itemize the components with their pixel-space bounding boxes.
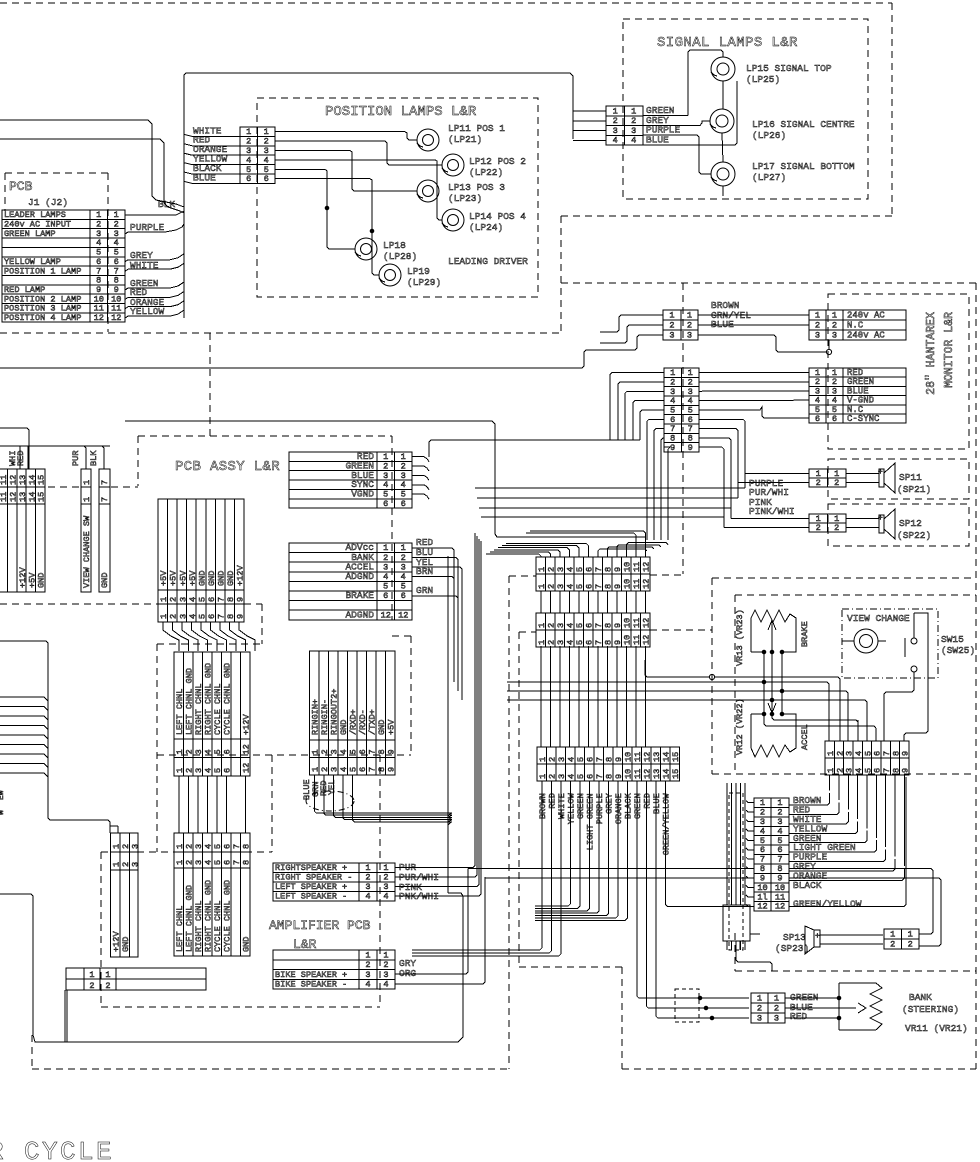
- svg-text:12: 12: [642, 635, 652, 645]
- svg-text:2: 2: [169, 614, 179, 619]
- svg-text:3: 3: [556, 623, 566, 628]
- svg-text:LIGHT GREEN: LIGHT GREEN: [585, 793, 595, 850]
- svg-text:2: 2: [320, 767, 330, 772]
- svg-text:GND: GND: [226, 571, 236, 586]
- svg-text:RIGHT CHNL: RIGHT CHNL: [194, 900, 204, 952]
- svg-text:9: 9: [614, 774, 624, 779]
- svg-text:SP13: SP13: [783, 932, 806, 943]
- svg-text:LP18: LP18: [383, 240, 406, 251]
- svg-text:6: 6: [358, 767, 368, 772]
- svg-text:GREEN: GREEN: [576, 793, 586, 819]
- svg-text:8: 8: [605, 757, 615, 762]
- svg-text:2: 2: [169, 597, 179, 602]
- svg-text:1: 1: [669, 310, 674, 320]
- svg-text:YEL: YEL: [327, 780, 337, 795]
- svg-text:LEFT SPEAKER +: LEFT SPEAKER +: [275, 882, 347, 892]
- svg-text:10: 10: [623, 579, 633, 589]
- svg-text:SP12: SP12: [899, 518, 922, 529]
- svg-text:8: 8: [226, 597, 236, 602]
- svg-text:LEFT CHNL GND: LEFT CHNL GND: [185, 668, 195, 735]
- svg-text:4: 4: [365, 980, 370, 990]
- svg-text:GREEN: GREEN: [633, 793, 643, 819]
- svg-text:(SP21): (SP21): [897, 484, 931, 495]
- svg-text:14: 14: [662, 769, 672, 779]
- svg-text:9: 9: [613, 584, 623, 589]
- svg-text:RED: RED: [547, 793, 557, 808]
- svg-text:C-SYNC: C-SYNC: [847, 414, 880, 424]
- svg-text:(LP29): (LP29): [407, 277, 441, 288]
- svg-text:LEFT SPEAKER -: LEFT SPEAKER -: [275, 892, 347, 902]
- svg-text:4: 4: [567, 757, 577, 762]
- svg-text:11: 11: [633, 752, 643, 762]
- svg-text:8: 8: [604, 640, 614, 645]
- svg-text:N.C: N.C: [847, 320, 864, 330]
- svg-text:CYCLE CHNL: CYCLE CHNL: [213, 900, 223, 952]
- svg-text:3: 3: [557, 757, 567, 762]
- svg-text:YELLOW: YELLOW: [130, 306, 165, 317]
- svg-text:J1 (J2): J1 (J2): [28, 197, 68, 208]
- svg-text:RINGIN-: RINGIN-: [320, 699, 330, 735]
- svg-text:1: 1: [537, 623, 547, 628]
- svg-text:1: 1: [687, 310, 692, 320]
- svg-text:3: 3: [383, 562, 388, 572]
- svg-text:2: 2: [383, 960, 388, 970]
- svg-text:11: 11: [632, 618, 642, 628]
- svg-text:5: 5: [576, 774, 586, 779]
- svg-text:1: 1: [774, 993, 779, 1003]
- svg-text:+5V: +5V: [169, 570, 179, 586]
- svg-text:1: 1: [631, 106, 636, 116]
- svg-text:ADGND: ADGND: [345, 571, 374, 582]
- svg-text:LP17 SIGNAL BOTTOM: LP17 SIGNAL BOTTOM: [752, 161, 855, 172]
- svg-text:9: 9: [901, 768, 911, 773]
- svg-text:BROWN: BROWN: [538, 793, 548, 819]
- svg-text:GND: GND: [377, 720, 387, 735]
- svg-text:(LP23): (LP23): [448, 193, 482, 204]
- svg-text:5: 5: [349, 749, 359, 754]
- svg-text:12: 12: [398, 610, 408, 620]
- svg-text:+5V: +5V: [178, 570, 188, 586]
- svg-text:8: 8: [604, 567, 614, 572]
- svg-text:CYCLE CHNL GND: CYCLE CHNL GND: [223, 880, 233, 952]
- svg-text:2: 2: [320, 749, 330, 754]
- svg-text:BRAKE: BRAKE: [800, 621, 810, 647]
- svg-text:12: 12: [242, 744, 252, 754]
- svg-text:(STEERING): (STEERING): [902, 1004, 959, 1015]
- svg-text:1: 1: [175, 860, 185, 865]
- svg-text:6: 6: [585, 623, 595, 628]
- svg-text:ORANGE: ORANGE: [614, 793, 624, 824]
- svg-text:4: 4: [204, 768, 214, 773]
- svg-text:RIGHT CHNL GND: RIGHT CHNL GND: [204, 880, 214, 952]
- svg-text:11: 11: [632, 579, 642, 589]
- svg-text:3: 3: [757, 1013, 762, 1023]
- svg-text:2: 2: [547, 623, 557, 628]
- svg-text:12: 12: [643, 769, 653, 779]
- svg-text:1: 1: [757, 993, 762, 1003]
- svg-text:4: 4: [383, 572, 388, 582]
- svg-text:5: 5: [213, 749, 223, 754]
- svg-text:11: 11: [633, 769, 643, 779]
- svg-text:PUR: PUR: [71, 451, 81, 466]
- svg-text:9: 9: [613, 567, 623, 572]
- svg-text:3: 3: [556, 567, 566, 572]
- svg-text:BLK: BLK: [89, 450, 99, 466]
- svg-text:3: 3: [365, 970, 370, 980]
- svg-text:RIGHTSPEAKER +: RIGHTSPEAKER +: [275, 863, 347, 873]
- svg-text:6: 6: [264, 174, 269, 184]
- svg-text:+5V: +5V: [387, 719, 397, 735]
- svg-text:6: 6: [223, 768, 233, 773]
- svg-text:(LP26): (LP26): [752, 130, 786, 141]
- svg-text:/RXD+: /RXD+: [349, 709, 359, 735]
- svg-text:5: 5: [213, 860, 223, 865]
- svg-text:1: 1: [159, 614, 169, 619]
- svg-text:(LP21): (LP21): [448, 134, 482, 145]
- svg-text:5: 5: [197, 597, 207, 602]
- svg-text:RINGOUT2+: RINGOUT2+: [330, 689, 340, 735]
- svg-text:ADGND: ADGND: [345, 609, 374, 620]
- svg-text:2: 2: [834, 523, 839, 533]
- svg-text:8: 8: [377, 749, 387, 754]
- svg-text:10: 10: [623, 618, 633, 628]
- svg-text:4: 4: [339, 767, 349, 772]
- svg-text:5: 5: [575, 640, 585, 645]
- svg-text:+5V: +5V: [188, 570, 198, 586]
- svg-text:12: 12: [757, 902, 767, 912]
- svg-text:1: 1: [365, 950, 370, 960]
- svg-text:4: 4: [339, 749, 349, 754]
- svg-text:12: 12: [642, 562, 652, 572]
- svg-text:2: 2: [365, 960, 370, 970]
- svg-text:3: 3: [401, 562, 406, 572]
- svg-text:9: 9: [670, 443, 675, 453]
- svg-text:1: 1: [537, 567, 547, 572]
- svg-text:GRN: GRN: [416, 585, 433, 596]
- svg-text:6: 6: [832, 414, 837, 424]
- svg-text:4: 4: [613, 136, 618, 146]
- svg-text:2: 2: [774, 1003, 779, 1013]
- svg-text:4: 4: [567, 774, 577, 779]
- svg-text:PURPLE: PURPLE: [595, 793, 605, 824]
- svg-text:7: 7: [594, 640, 604, 645]
- svg-text:4: 4: [204, 844, 214, 849]
- svg-text:WHITE: WHITE: [557, 793, 567, 819]
- svg-text:12: 12: [381, 610, 391, 620]
- svg-text:7: 7: [368, 767, 378, 772]
- svg-text:EW: EW: [0, 790, 6, 800]
- svg-text:LP19: LP19: [407, 266, 430, 277]
- svg-text:1: 1: [365, 863, 370, 873]
- svg-text:3: 3: [383, 970, 388, 980]
- svg-text:GREEN/YELLOW: GREEN/YELLOW: [793, 899, 862, 910]
- svg-text:PCB ASSY L&R: PCB ASSY L&R: [175, 459, 280, 475]
- svg-text:9: 9: [387, 749, 397, 754]
- svg-text:3: 3: [687, 330, 692, 340]
- svg-text:LP12 POS 2: LP12 POS 2: [469, 156, 526, 167]
- svg-text:6: 6: [815, 414, 820, 424]
- svg-text:28″ HANTAREX: 28″ HANTAREX: [925, 312, 938, 395]
- svg-text:6: 6: [586, 774, 596, 779]
- svg-text:1: 1: [175, 844, 185, 849]
- svg-text:+: +: [815, 932, 820, 941]
- svg-text:240v AC: 240v AC: [847, 310, 885, 320]
- svg-text:2: 2: [548, 774, 558, 779]
- svg-text:RED: RED: [642, 793, 652, 808]
- svg-text:10: 10: [623, 562, 633, 572]
- svg-text:3: 3: [194, 749, 204, 754]
- svg-text:4: 4: [204, 749, 214, 754]
- svg-text:GREEN LAMP: GREEN LAMP: [4, 229, 56, 239]
- svg-text:GREY: GREY: [604, 793, 614, 814]
- svg-text:RIGHT CHNL: RIGHT CHNL: [194, 683, 204, 735]
- svg-text:2: 2: [757, 1003, 762, 1013]
- svg-text:3: 3: [130, 844, 140, 849]
- svg-text:1: 1: [908, 930, 913, 940]
- svg-text:1: 1: [159, 597, 169, 602]
- svg-text:RINGIN+: RINGIN+: [311, 699, 321, 735]
- svg-text:VR11 (VR21): VR11 (VR21): [905, 1023, 968, 1034]
- svg-text:LP11 POS 1: LP11 POS 1: [448, 123, 505, 134]
- svg-text:6: 6: [246, 174, 251, 184]
- svg-text:8: 8: [377, 767, 387, 772]
- svg-text:1: 1: [537, 640, 547, 645]
- svg-text:3: 3: [631, 126, 636, 136]
- svg-text:2: 2: [547, 567, 557, 572]
- svg-text:9: 9: [614, 757, 624, 762]
- svg-text:BIKE SPEAKER +: BIKE SPEAKER +: [275, 970, 347, 980]
- svg-text:VR12 (VR22): VR12 (VR22): [735, 698, 745, 755]
- svg-text:5: 5: [349, 767, 359, 772]
- svg-text:4: 4: [383, 892, 388, 902]
- svg-text:BRAKE: BRAKE: [345, 590, 374, 601]
- svg-text:2: 2: [401, 553, 406, 563]
- svg-text:3: 3: [774, 1013, 779, 1023]
- svg-text:3: 3: [330, 767, 340, 772]
- svg-text:VR13 (VR23): VR13 (VR23): [735, 609, 745, 666]
- svg-text:9: 9: [613, 640, 623, 645]
- svg-text:12: 12: [775, 902, 785, 912]
- svg-text:5: 5: [576, 757, 586, 762]
- svg-text:11: 11: [632, 635, 642, 645]
- svg-text:POSITION 1 LAMP: POSITION 1 LAMP: [4, 266, 81, 276]
- svg-text:5: 5: [197, 614, 207, 619]
- svg-text:2: 2: [383, 873, 388, 883]
- svg-text:12: 12: [94, 313, 104, 323]
- svg-text:1: 1: [383, 543, 388, 553]
- svg-text:1: 1: [383, 950, 388, 960]
- svg-text:RED: RED: [16, 451, 26, 466]
- svg-text:LP15 SIGNAL TOP: LP15 SIGNAL TOP: [746, 63, 832, 74]
- svg-text:CYCLE CHNL: CYCLE CHNL: [213, 683, 223, 735]
- svg-text:9: 9: [387, 767, 397, 772]
- svg-text:(SW25): (SW25): [941, 645, 975, 656]
- svg-text:BLUE: BLUE: [646, 134, 669, 145]
- svg-text:5: 5: [575, 584, 585, 589]
- svg-text:7: 7: [232, 844, 242, 849]
- svg-text:6: 6: [207, 597, 217, 602]
- svg-text:BLUE: BLUE: [652, 793, 662, 814]
- svg-text:(LP28): (LP28): [383, 251, 417, 262]
- svg-text:1: 1: [82, 497, 92, 502]
- svg-text:1: 1: [82, 480, 92, 485]
- svg-text:9: 9: [901, 751, 911, 756]
- svg-text:7: 7: [595, 774, 605, 779]
- svg-text:PINK/WHI: PINK/WHI: [749, 506, 795, 517]
- svg-text:6: 6: [401, 499, 406, 509]
- svg-text:SP11: SP11: [899, 472, 922, 483]
- svg-text:7: 7: [594, 584, 604, 589]
- svg-text:4: 4: [566, 567, 576, 572]
- svg-text:2: 2: [185, 768, 195, 773]
- svg-text:RIGHT CHNL GND: RIGHT CHNL GND: [204, 663, 214, 735]
- svg-text:10: 10: [624, 752, 634, 762]
- svg-text:BLACK: BLACK: [623, 792, 633, 819]
- svg-text:ACCEL: ACCEL: [800, 724, 810, 750]
- svg-text:BLUE: BLUE: [193, 172, 216, 183]
- svg-text:7: 7: [216, 597, 226, 602]
- svg-text:1: 1: [175, 768, 185, 773]
- svg-text:2: 2: [631, 116, 636, 126]
- svg-text:2: 2: [383, 553, 388, 563]
- svg-text:AMPLIFIER PCB: AMPLIFIER PCB: [269, 918, 371, 933]
- svg-text:7: 7: [100, 497, 110, 502]
- svg-text:15: 15: [37, 492, 47, 502]
- svg-text:VIEW CHANGE: VIEW CHANGE: [847, 613, 910, 624]
- svg-text:1: 1: [832, 310, 837, 320]
- svg-text:1: 1: [311, 767, 321, 772]
- svg-text:VIEW CHANGE SW: VIEW CHANGE SW: [82, 515, 92, 588]
- svg-text:4: 4: [365, 892, 370, 902]
- svg-text:5: 5: [213, 844, 223, 849]
- svg-text:1: 1: [89, 970, 94, 980]
- svg-text:GND: GND: [339, 720, 349, 735]
- svg-text:6: 6: [585, 640, 595, 645]
- svg-text:3: 3: [178, 614, 188, 619]
- svg-text:4: 4: [204, 860, 214, 865]
- svg-text:15: 15: [671, 769, 681, 779]
- svg-text:1: 1: [537, 584, 547, 589]
- svg-text:1: 1: [311, 749, 321, 754]
- svg-text:7: 7: [216, 614, 226, 619]
- svg-text:3: 3: [613, 126, 618, 136]
- svg-text:1: 1: [890, 930, 895, 940]
- svg-text:2: 2: [547, 640, 557, 645]
- svg-text:10: 10: [624, 769, 634, 779]
- svg-text:3: 3: [194, 768, 204, 773]
- svg-text:PURPLE: PURPLE: [130, 222, 165, 233]
- svg-text:GND: GND: [197, 571, 207, 586]
- svg-text:LEFT CHNL: LEFT CHNL: [175, 906, 185, 952]
- svg-text:(SP23): (SP23): [775, 943, 809, 954]
- svg-text:6: 6: [207, 614, 217, 619]
- svg-text:BLK: BLK: [158, 199, 175, 210]
- svg-text:1: 1: [815, 310, 820, 320]
- svg-text:2: 2: [185, 844, 195, 849]
- svg-text:8: 8: [226, 614, 236, 619]
- svg-text:6: 6: [223, 844, 233, 849]
- svg-text:3: 3: [330, 749, 340, 754]
- svg-text:VGND: VGND: [351, 489, 374, 500]
- svg-text:2: 2: [908, 940, 913, 950]
- svg-text:GND: GND: [216, 571, 226, 586]
- svg-text:7: 7: [595, 757, 605, 762]
- svg-text:5: 5: [401, 582, 406, 592]
- svg-text:2: 2: [815, 320, 820, 330]
- svg-text:SW15: SW15: [941, 634, 964, 645]
- svg-text:2: 2: [816, 523, 821, 533]
- svg-text:5: 5: [383, 582, 388, 592]
- svg-text:POSITION LAMPS L&R: POSITION LAMPS L&R: [325, 104, 477, 120]
- svg-text:4: 4: [631, 136, 636, 146]
- svg-text:4: 4: [188, 597, 198, 602]
- svg-text:6: 6: [223, 749, 233, 754]
- svg-text:3: 3: [832, 330, 837, 340]
- svg-text:3: 3: [669, 330, 674, 340]
- svg-text:BRN: BRN: [416, 566, 433, 577]
- svg-text:3: 3: [815, 330, 820, 340]
- svg-text:2: 2: [547, 584, 557, 589]
- svg-text:GND: GND: [37, 573, 47, 588]
- svg-text:6: 6: [585, 567, 595, 572]
- svg-text:2: 2: [365, 873, 370, 883]
- svg-text:1: 1: [401, 543, 406, 553]
- svg-text:15: 15: [671, 752, 681, 762]
- svg-text:4: 4: [566, 623, 576, 628]
- svg-text:(LP24): (LP24): [469, 222, 503, 233]
- svg-text:240v AC: 240v AC: [847, 330, 885, 340]
- svg-text:GREEN/YELLOW: GREEN/YELLOW: [661, 793, 671, 856]
- svg-text:8: 8: [242, 844, 252, 849]
- svg-text:3: 3: [556, 584, 566, 589]
- svg-text:2: 2: [687, 320, 692, 330]
- svg-text:6: 6: [383, 499, 388, 509]
- svg-text:/RXD-: /RXD-: [358, 709, 368, 735]
- svg-text:3: 3: [557, 774, 567, 779]
- svg-text:GND: GND: [100, 573, 110, 588]
- svg-text:8: 8: [605, 774, 615, 779]
- svg-text:12: 12: [643, 752, 653, 762]
- svg-text:LEADING DRIVER: LEADING DRIVER: [448, 256, 528, 267]
- svg-text:2: 2: [816, 478, 821, 488]
- svg-text:2: 2: [890, 940, 895, 950]
- svg-text:GND: GND: [207, 571, 217, 586]
- svg-text:6: 6: [585, 584, 595, 589]
- svg-text:1: 1: [538, 774, 548, 779]
- svg-text:7: 7: [368, 749, 378, 754]
- svg-text:15: 15: [37, 475, 47, 485]
- svg-text:4: 4: [188, 614, 198, 619]
- svg-text:LP13 POS 3: LP13 POS 3: [448, 182, 505, 193]
- svg-text:YELLOW: YELLOW: [566, 792, 576, 824]
- svg-text:9: 9: [613, 623, 623, 628]
- svg-text:3: 3: [194, 860, 204, 865]
- svg-text:7: 7: [100, 480, 110, 485]
- svg-text:3: 3: [556, 640, 566, 645]
- svg-text:9: 9: [688, 443, 693, 453]
- svg-text:+5V: +5V: [159, 570, 169, 586]
- svg-text:5: 5: [213, 768, 223, 773]
- svg-text:3: 3: [130, 862, 140, 867]
- svg-text:RIGHT SPEAKER -: RIGHT SPEAKER -: [275, 873, 352, 883]
- svg-text:BIKE SPEAKER -: BIKE SPEAKER -: [275, 980, 347, 990]
- svg-text:8: 8: [604, 623, 614, 628]
- svg-text:2: 2: [834, 478, 839, 488]
- svg-text:LEFT CHNL GND: LEFT CHNL GND: [185, 885, 195, 952]
- svg-text:9: 9: [236, 597, 246, 602]
- svg-text:12: 12: [642, 579, 652, 589]
- svg-text:1: 1: [613, 106, 618, 116]
